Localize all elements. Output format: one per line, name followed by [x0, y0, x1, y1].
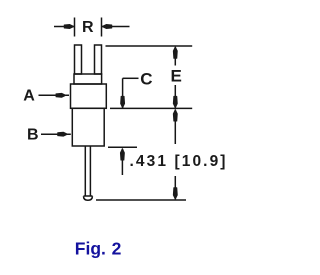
dim text .431 [10.9] [130, 153, 228, 170]
dim E line upper [174, 47, 176, 66]
dim E line lower [174, 85, 176, 108]
body B [72, 108, 104, 146]
dim R leader left wire [54, 26, 74, 28]
extension line prong top [106, 45, 193, 47]
arrow A [56, 93, 66, 97]
svg-text:C: C [140, 69, 152, 88]
label B [27, 127, 39, 144]
arrow chain up [173, 110, 177, 122]
label R [82, 19, 94, 36]
arrow E top [173, 47, 177, 59]
svg-text:A: A [23, 87, 35, 104]
dim 431 chain line upper [174, 110, 176, 144]
arrow R left [64, 25, 74, 29]
svg-text:2: 2 [112, 239, 122, 259]
caption Fig. 2 [75, 239, 122, 259]
svg-text:R: R [82, 19, 94, 36]
arrow R right [102, 25, 112, 29]
extension line body B bottom [108, 146, 137, 148]
svg-text:B: B [27, 127, 39, 144]
svg-text:.431 [10.9]: .431 [10.9] [130, 153, 228, 170]
dim 431 leader wire [121, 149, 123, 175]
dim 431 chain line lower [174, 176, 176, 199]
label E [171, 67, 182, 86]
body A [71, 84, 107, 108]
arrow E bottom [173, 96, 177, 108]
dim C leader wire [123, 78, 139, 108]
label C [140, 69, 152, 88]
dim R extension line left [74, 18, 76, 37]
arrow B [58, 132, 68, 136]
arrow chain down [173, 188, 177, 200]
leader A wire [39, 94, 70, 96]
extension line body A bottom [110, 107, 192, 109]
prong right [95, 45, 102, 74]
pin tip [84, 196, 93, 200]
dim R extension line right [101, 18, 103, 37]
prong left [75, 45, 82, 74]
label A [23, 87, 35, 104]
extension line pin tip [96, 199, 186, 201]
collar [74, 74, 102, 84]
svg-text:E: E [171, 67, 182, 86]
dim R leader right wire [102, 26, 130, 28]
arrow 431 up [120, 149, 124, 161]
svg-text:Fig.: Fig. [75, 239, 106, 259]
arrow C down [121, 96, 125, 108]
leader B wire [41, 133, 71, 135]
pin shaft [85, 146, 90, 196]
